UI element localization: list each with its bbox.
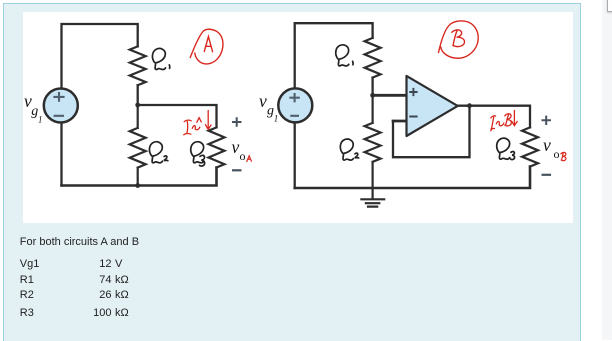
svg-text:v: v [543, 135, 551, 155]
op-amp U1 (circuit B) [407, 76, 458, 136]
label vg1 (circuit A) [24, 91, 43, 125]
svg-text:o: o [240, 149, 246, 163]
wire: node to R3 top (circuit A) [138, 105, 217, 127]
node: bottom junction (circuit A) [135, 183, 140, 188]
svg-text:v: v [259, 91, 267, 111]
resistor R2 (circuit B) [365, 95, 381, 188]
wire: circuit B left lower [294, 123, 296, 188]
wire: feedback loop to inverting input (circuit B) [393, 120, 407, 123]
label R3 (circuit A) [191, 142, 205, 166]
label vg1 (circuit B) [259, 91, 278, 124]
annotation: red circled B [439, 21, 479, 58]
label voB [543, 135, 566, 161]
annotation: red circled A [190, 29, 223, 64]
gray popup box corner top-right [607, 0, 612, 12]
wire: op-amp output to R3 (circuit B) [458, 106, 530, 128]
right gray column [602, 0, 612, 340]
wire: circuit B bottom rail [295, 167, 530, 188]
svg-text:1: 1 [38, 115, 43, 125]
wire: circuit B top rail [295, 23, 538, 206]
svg-text:o: o [554, 147, 560, 161]
svg-text:1: 1 [274, 113, 279, 123]
resistor R1 (circuit B) [365, 38, 381, 78]
label R1 (circuit B) [336, 45, 353, 66]
voltage source Vg1 (circuit B) [278, 88, 312, 122]
label R3 (circuit B) [497, 138, 515, 159]
label minus (output B) [542, 174, 552, 176]
wire: circuit A left lower [60, 123, 62, 186]
node: R1-R2-opamp junction (circuit B) [370, 93, 375, 98]
resistor R1 (circuit A) [130, 46, 146, 85]
wire: circuit A top rail [62, 24, 138, 88]
annotation: red IR3A with down arrow (circuit A) [184, 111, 211, 135]
white schematic plate [23, 12, 573, 223]
resistor R3 (circuit A) [209, 127, 225, 167]
label + (output A) [232, 117, 242, 126]
label R2 (circuit B) [340, 139, 358, 160]
label + (output B) [542, 116, 552, 125]
label minus (output A) [232, 169, 242, 171]
voltage source Vg1 (circuit A) [44, 89, 78, 123]
table: For both circuits A and B [20, 237, 139, 248]
resistor R3 (circuit B) [522, 127, 538, 166]
label R1 (circuit A) [152, 48, 169, 69]
wire: R1 bottom to junction (circuit B) [371, 78, 373, 96]
resistor R2 (circuit A) [130, 105, 146, 186]
label R2 (circuit A) [149, 142, 167, 163]
node: R1-R2-R3 junction (circuit A) [135, 103, 140, 108]
ground (circuit B) [361, 188, 384, 207]
label voA [232, 137, 252, 163]
wire: junction to op-amp + input (circuit B) [373, 94, 407, 97]
svg-text:v: v [232, 137, 240, 157]
wire: circuit A bottom rail [62, 168, 217, 186]
wire: R1 bottom to node (circuit A) [137, 85, 139, 105]
annotation: red IR3B with down arrow (circuit B) [491, 111, 517, 131]
node: output junction (circuit B) [467, 103, 472, 108]
